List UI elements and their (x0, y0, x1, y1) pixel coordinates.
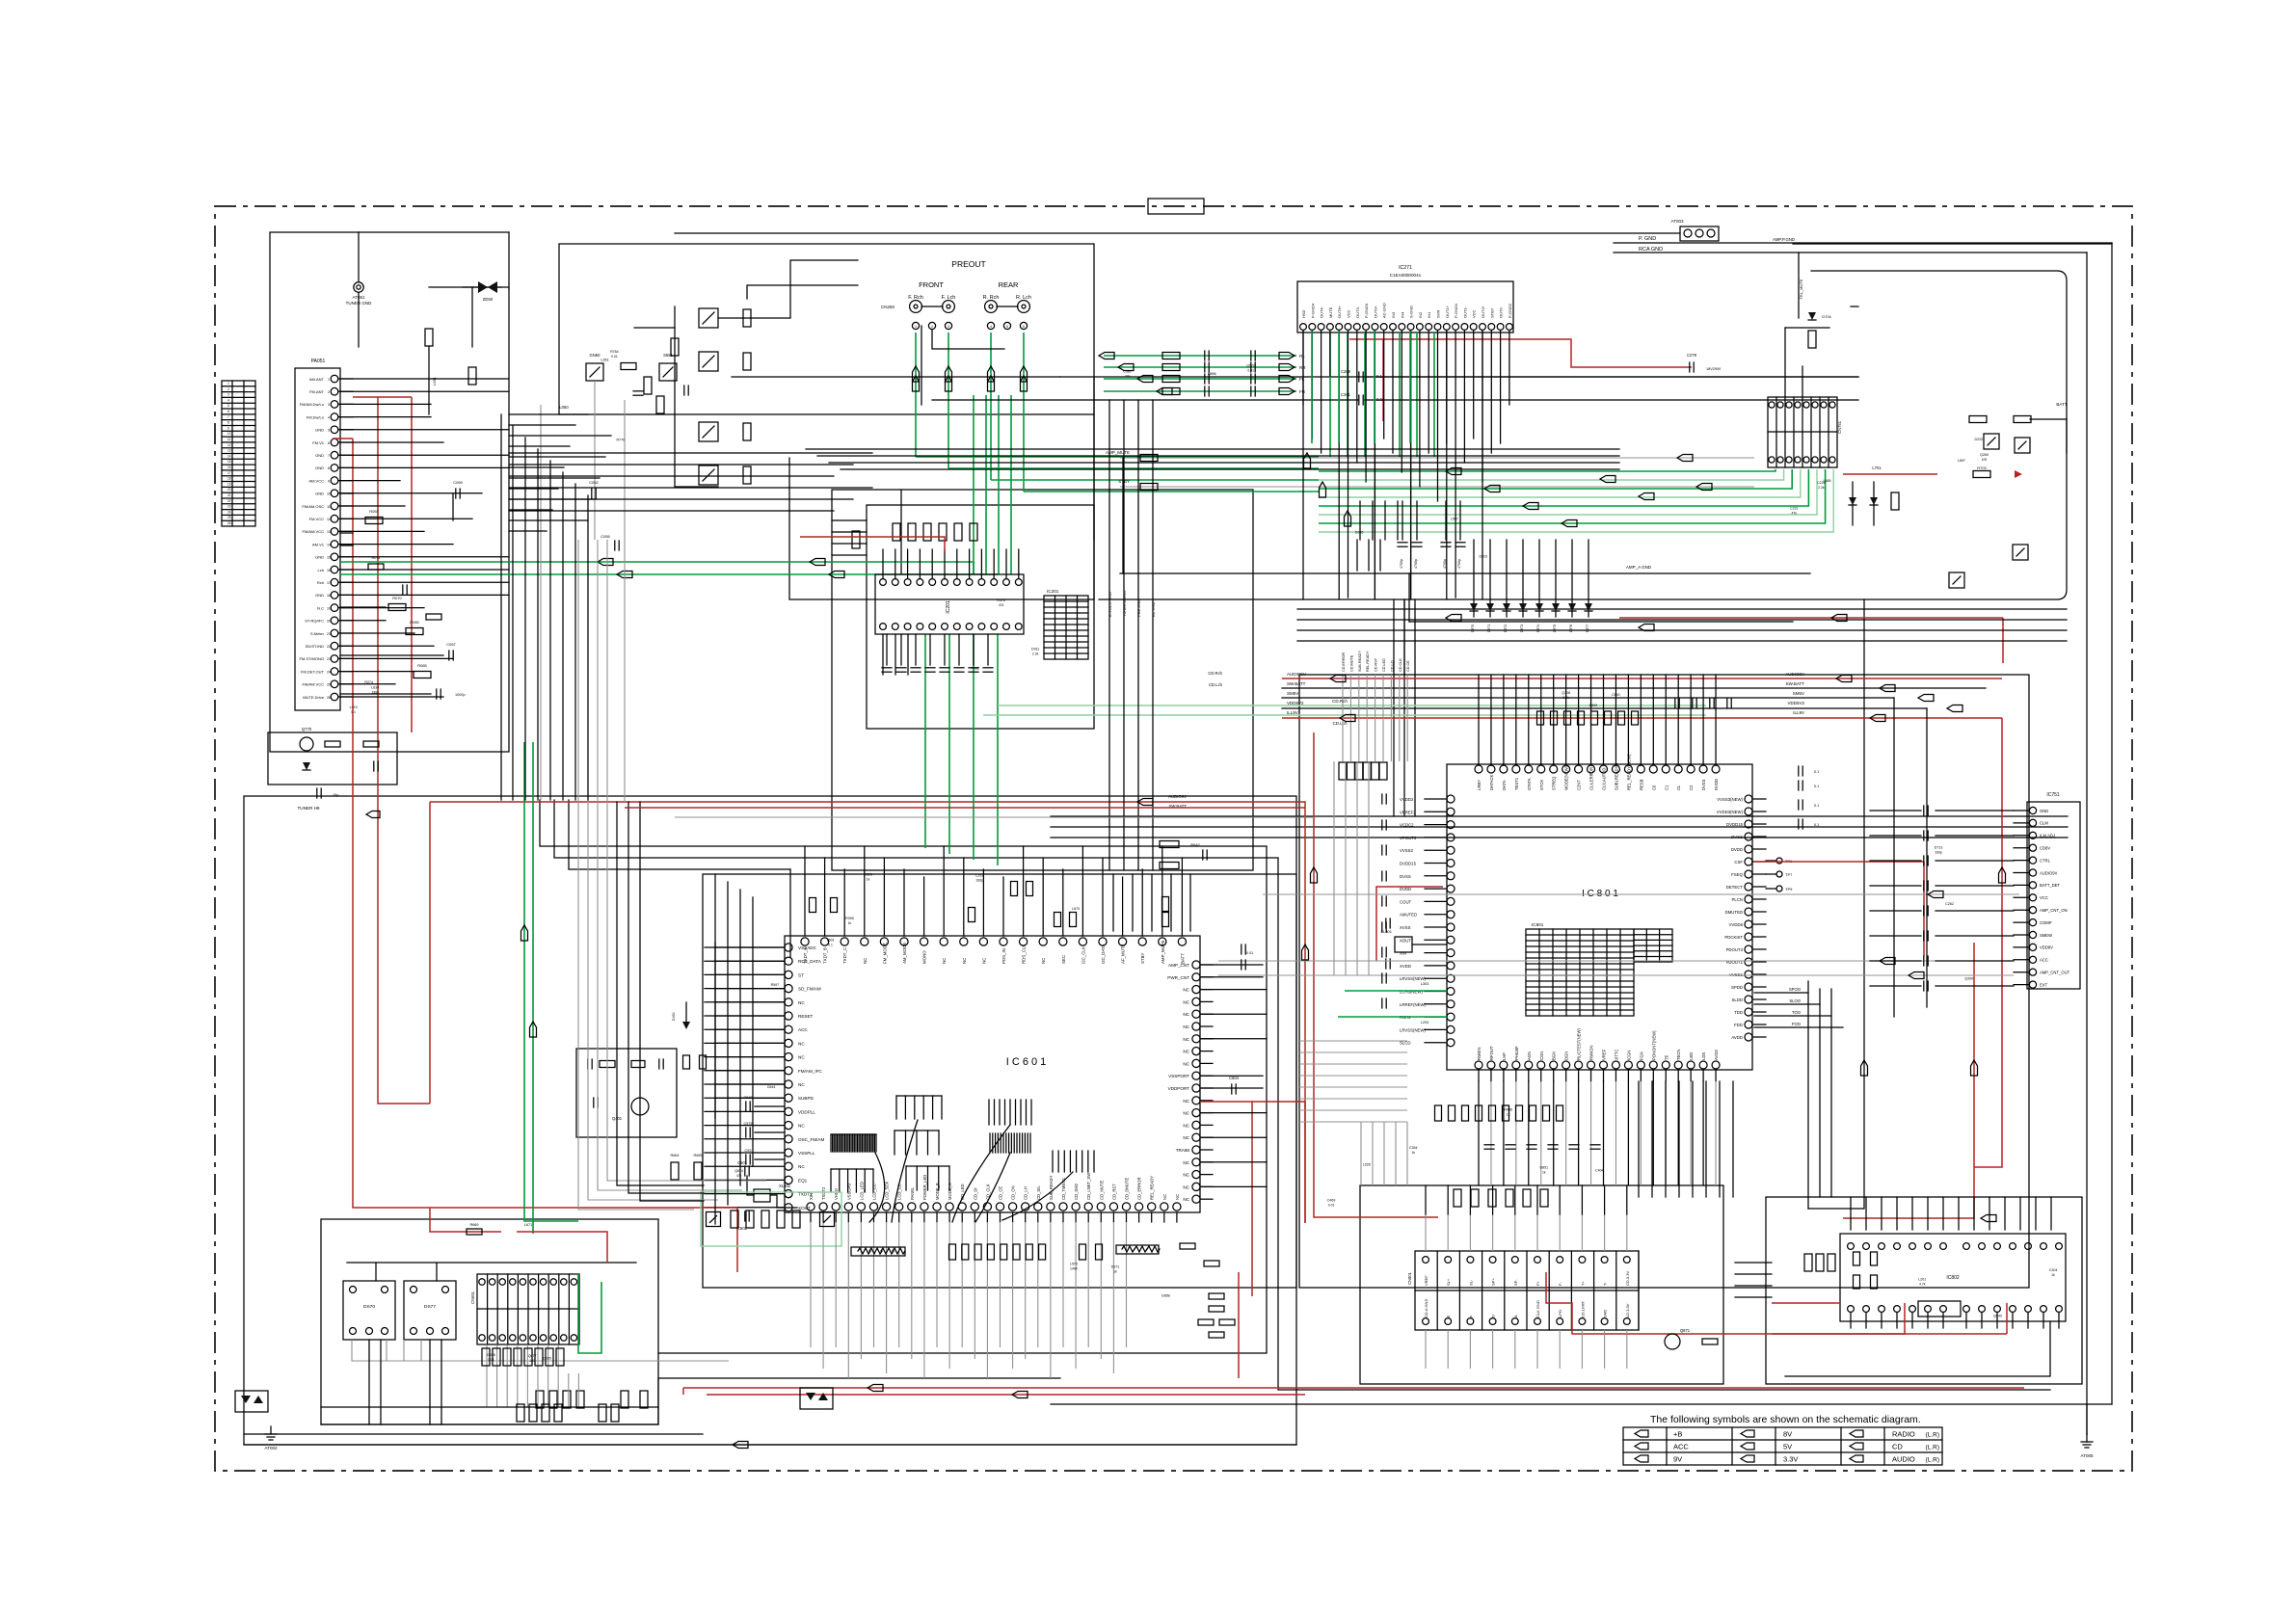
red keypad feed (430, 1208, 501, 1232)
svg-text:SLDD: SLDD (1732, 998, 1743, 1002)
svg-text:D858: D858 (1161, 1293, 1170, 1297)
svg-text:R053: R053 (369, 509, 379, 514)
svg-text:NC: NC (1041, 958, 1046, 964)
svg-text:21: 21 (227, 493, 231, 497)
svg-text:DMUTED: DMUTED (1725, 910, 1743, 915)
svg-text:4.7k: 4.7k (1919, 1283, 1926, 1287)
crystal XL601 (754, 1189, 770, 1202)
svg-text:FR: FR (1299, 389, 1306, 394)
thick gnd drop AT005 (2086, 1404, 2088, 1434)
red bottom-left tuner drop (353, 1099, 430, 1208)
cap C269 C261 (1358, 372, 1360, 382)
svg-text:15: 15 (327, 556, 331, 560)
svg-text:T+: T+ (1580, 1281, 1585, 1286)
svg-text:VSSPORT: VSSPORT (1168, 1074, 1189, 1078)
svg-text:Q677: Q677 (528, 1354, 537, 1358)
middle thick L to ic601 (789, 869, 791, 957)
svg-text:FM.VCC: FM.VCC (309, 517, 324, 521)
svg-text:R395: R395 (845, 917, 854, 920)
ic801 top resistor cluster (1537, 711, 1544, 725)
svg-text:1: 1 (227, 382, 229, 386)
front panel connector CN651 (477, 1274, 579, 1344)
svg-text:VVDD5: VVDD5 (1729, 922, 1744, 927)
IC801 test-mode table (1526, 929, 1634, 1016)
svg-text:CD_ERROR: CD_ERROR (1137, 1178, 1142, 1201)
svg-text:13: 13 (227, 449, 231, 453)
svg-text:PDOUT3: PDOUT3 (1726, 947, 1744, 952)
IC751 feed caps (1923, 806, 1925, 815)
svg-text:26: 26 (227, 521, 231, 525)
svg-text:Q871: Q871 (1680, 1328, 1691, 1333)
svg-text:GN50: GN50 (590, 353, 601, 358)
svg-text:8V: 8V (1783, 1430, 1792, 1439)
wire verticals into cd box (1393, 599, 1395, 816)
svg-text:IN1: IN1 (1427, 311, 1431, 318)
svg-text:Q896: Q896 (1208, 372, 1216, 376)
svg-text:ACC: ACC (798, 1027, 808, 1032)
svg-text:1: 1 (328, 378, 330, 382)
wire gray af-mute (624, 400, 626, 802)
preout inner wires (921, 326, 922, 405)
svg-text:VDD5V2: VDD5V2 (1287, 701, 1304, 705)
svg-text:TRA88: TRA88 (1176, 1148, 1190, 1153)
svg-text:RL: RL (1299, 354, 1305, 359)
svg-text:R784: R784 (610, 350, 619, 354)
svg-text:TP9: TP9 (1785, 887, 1793, 891)
svg-text:ST: ST (798, 972, 804, 977)
svg-text:P-GND3: P-GND3 (1364, 303, 1369, 318)
svg-text:18V2900: 18V2900 (1706, 367, 1721, 371)
wire green speaker bus 8 rows (1319, 469, 1775, 471)
wire green jack drops (915, 333, 917, 457)
svg-text:D851: D851 (1540, 1165, 1549, 1169)
svg-text:F-: F- (1558, 1282, 1562, 1286)
svg-text:VPREF2: VPREF2 (1400, 810, 1416, 814)
svg-text:S551: S551 (663, 353, 673, 358)
svg-text:20: 20 (227, 488, 231, 492)
left small caps tuner (455, 489, 457, 498)
wire ic801 bottom drops (1478, 1081, 1480, 1185)
svg-text:REAR: REAR (999, 280, 1019, 289)
right q cluster (1984, 434, 1999, 449)
svg-text:DGN: DGN (1564, 1051, 1569, 1060)
wire L051 (428, 347, 430, 414)
svg-text:COMP: COMP (2040, 920, 2052, 925)
svg-text:23: 23 (327, 657, 331, 661)
svg-text:AVSS: AVSS (1714, 1050, 1719, 1060)
svg-text:VCC: VCC (2040, 895, 2048, 900)
svg-text:CD.ERROR: CD.ERROR (1342, 652, 1346, 672)
wire green keypad box (701, 1192, 841, 1246)
svg-text:R694: R694 (670, 1154, 679, 1157)
thick bus main 3 (569, 800, 790, 869)
svg-text:NC: NC (1183, 1012, 1189, 1017)
svg-text:GND: GND (315, 492, 324, 496)
svg-text:C53: C53 (745, 1149, 752, 1153)
svg-text:NC: NC (1183, 1173, 1189, 1178)
svg-text:C1EA00000041: C1EA00000041 (1390, 273, 1422, 278)
wire tuner pin stubs (340, 378, 509, 380)
svg-text:I C 6 0 1: I C 6 0 1 (1006, 1056, 1047, 1068)
svg-text:C644: C644 (767, 1085, 776, 1089)
svg-text:PONONT(NEW): PONONT(NEW) (1651, 1030, 1656, 1060)
resistor network TA601 (851, 1247, 905, 1256)
wire red audio9v right top (1619, 617, 2003, 619)
svg-text:19: 19 (327, 606, 331, 610)
svg-text:R703: R703 (1977, 466, 1987, 470)
svg-text:FM/AM.VCC: FM/AM.VCC (303, 682, 325, 687)
svg-text:R642: R642 (1190, 842, 1200, 847)
svg-text:C279: C279 (1687, 353, 1697, 358)
bus into IC601 left (715, 946, 785, 948)
svg-text:RMKIN: RMKIN (1477, 1048, 1482, 1061)
svg-text:NC: NC (1183, 1050, 1189, 1054)
svg-text:C057: C057 (446, 642, 456, 647)
IC601 top feeds (804, 846, 806, 936)
svg-text:AT002: AT002 (265, 1446, 278, 1450)
svg-text:SD/ST.IND: SD/ST.IND (306, 644, 324, 649)
svg-text:SUB_READY: SUB_READY (1049, 1175, 1054, 1200)
svg-text:4700p: 4700p (1414, 559, 1418, 569)
svg-text:C640: C640 (1612, 693, 1620, 697)
svg-text:ST-RQ/IFC: ST-RQ/IFC (305, 619, 324, 624)
svg-text:DATACK: DATACK (1489, 774, 1494, 790)
svg-text:L526: L526 (1363, 1163, 1371, 1167)
e-vol sub-board box (832, 490, 1253, 870)
svg-text:CD8V: CD8V (2040, 846, 2050, 851)
key matrix DS70 (343, 1281, 395, 1340)
svg-text:LHF: LHF (1502, 1052, 1507, 1060)
svg-text:L897: L897 (1958, 459, 1965, 463)
svg-text:I2C_DATA: I2C_DATA (1101, 945, 1106, 964)
svg-text:1k: 1k (848, 921, 852, 925)
svg-text:(L.R): (L.R) (1926, 1432, 1939, 1439)
svg-text:6: 6 (328, 441, 330, 445)
svg-text:C261: C261 (1341, 392, 1351, 397)
system control IC751 (2027, 802, 2080, 989)
svg-text:11: 11 (227, 438, 231, 441)
svg-text:RCA GND: RCA GND (1639, 247, 1663, 253)
tuner box top bus (359, 231, 509, 233)
svg-text:NC: NC (1162, 1194, 1167, 1200)
tuner sub-board box (270, 232, 509, 752)
svg-text:AUDIO9V: AUDIO9V (1168, 794, 1187, 799)
svg-text:EXT: EXT (2040, 982, 2048, 987)
crystal XL801 (1395, 937, 1412, 952)
gray line vddsv2 (675, 816, 1314, 818)
svg-text:NC: NC (1183, 1061, 1189, 1066)
tuner bus verticals bundle (500, 414, 502, 800)
IC801 test points (1776, 858, 1782, 864)
svg-text:RESET: RESET (798, 1014, 814, 1019)
thick bus right loop (1099, 271, 2067, 599)
transistor cluster Q251-254 (699, 308, 718, 328)
svg-text:LRVSS(NEW): LRVSS(NEW) (1400, 1027, 1426, 1032)
svg-text:L303: L303 (1421, 982, 1428, 986)
cd signal cluster top (1342, 675, 1344, 761)
svg-text:1k: 1k (1411, 1151, 1415, 1155)
svg-text:D828: D828 (864, 873, 872, 877)
svg-text:26: 26 (327, 696, 331, 700)
IC271 deep drops (1302, 331, 1304, 599)
IC601 top pins (801, 938, 809, 945)
net arrows scattered (1099, 353, 1114, 359)
svg-text:47k: 47k (736, 1174, 742, 1178)
ic601 box top feeds from rails (1112, 874, 1114, 931)
svg-text:OSC_FM/AM: OSC_FM/AM (798, 1137, 824, 1142)
svg-text:AMUTED: AMUTED (1400, 913, 1417, 918)
svg-text:PDCKIST: PDCKIST (1724, 935, 1743, 940)
svg-text:OUT4+: OUT4+ (1337, 305, 1342, 318)
svg-text:D223: D223 (1974, 438, 1983, 441)
wire red evol vcc (800, 537, 945, 551)
svg-text:23: 23 (227, 505, 231, 509)
ic801 top caps right (1674, 699, 1676, 708)
main micro sub-board box (703, 874, 1296, 1288)
svg-text:AT003: AT003 (1671, 219, 1684, 224)
svg-text:XL601: XL601 (779, 1184, 791, 1188)
svg-text:C469: C469 (1327, 1198, 1336, 1202)
svg-text:TXDT2: TXDT2 (821, 1186, 826, 1200)
svg-text:0.01: 0.01 (1247, 369, 1254, 373)
svg-text:C2: C2 (1689, 785, 1694, 790)
svg-text:CD.LIMIT: CD.LIMIT (1580, 1300, 1585, 1317)
svg-text:2.2k: 2.2k (1818, 486, 1825, 490)
svg-text:AMP.P.GND: AMP.P.GND (1773, 237, 1795, 242)
svg-text:COUT: COUT (1400, 899, 1412, 904)
svg-text:Q570: Q570 (1246, 364, 1255, 368)
tuner pin table (222, 381, 255, 526)
svg-text:D355: D355 (1355, 530, 1364, 534)
svg-text:C548: C548 (743, 1096, 752, 1100)
gray bundle verticals mid (578, 540, 694, 1210)
svg-text:ILL9V: ILL9V (1287, 710, 1298, 715)
tuner lower wires (340, 606, 386, 608)
svg-text:BATT_DET: BATT_DET (2040, 883, 2061, 888)
svg-text:IN3: IN3 (1391, 311, 1396, 318)
IC601 bottom pins (807, 1203, 814, 1211)
aux resistor cluster in green box (731, 1211, 738, 1228)
svg-text:TOO: TOO (1792, 1010, 1802, 1015)
svg-text:C221: C221 (1790, 506, 1799, 510)
svg-text:3: 3 (328, 403, 330, 407)
svg-text:FM.V1: FM.V1 (312, 440, 325, 445)
svg-text:5: 5 (227, 404, 229, 408)
svg-text:C269: C269 (1341, 369, 1351, 374)
op-amp U-IC801 body (1447, 764, 1752, 1070)
svg-text:LED: LED (1689, 1052, 1694, 1060)
svg-text:E: E (1446, 1315, 1451, 1317)
svg-text:5V: 5V (1783, 1443, 1792, 1451)
svg-text:PLCN: PLCN (1732, 897, 1743, 902)
thick bus amp gnd (789, 458, 1094, 599)
svg-text:SM5V: SM5V (1793, 691, 1804, 696)
red keypad L671 (517, 1231, 540, 1233)
evol side resistors (852, 531, 860, 548)
svg-text:VHSU: VHSU (834, 1188, 839, 1200)
svg-text:R065: R065 (417, 663, 427, 668)
keyboard lower resistors (536, 1391, 544, 1408)
svg-text:NC: NC (1175, 1194, 1180, 1200)
svg-text:TE: TE (1664, 1054, 1669, 1060)
svg-text:VSSPLL: VSSPLL (798, 1151, 815, 1156)
AT051 tuner gnd (354, 282, 363, 292)
ic802 top feeds (1850, 1197, 1852, 1230)
svg-text:(L.R): (L.R) (1926, 1445, 1939, 1451)
svg-text:REL.READY: REL.READY (1366, 651, 1370, 672)
svg-text:D973: D973 (1520, 625, 1524, 633)
svg-text:D823: D823 (1479, 554, 1487, 558)
right area mesh (1807, 981, 1809, 1209)
wire gray stby (1120, 486, 1754, 488)
IC271 caps below (1402, 501, 1403, 540)
svg-text:4700p: 4700p (1400, 559, 1403, 569)
svg-text:DVDD15: DVDD15 (1400, 862, 1417, 866)
svg-text:C404: C404 (1595, 1168, 1604, 1172)
wire red tuner verticals (352, 439, 354, 1099)
svg-text:ILL9V: ILL9V (1793, 710, 1804, 715)
Q871 transistor (1665, 1334, 1680, 1349)
svg-text:CD_LH: CD_LH (1024, 1186, 1028, 1200)
svg-text:DATA: DATA (1502, 780, 1507, 790)
svg-text:D704: D704 (1822, 314, 1831, 319)
svg-text:PHILBF: PHILBF (1514, 1046, 1519, 1060)
keyboard wires down (368, 1340, 370, 1424)
svg-text:R695: R695 (693, 1154, 702, 1157)
svg-text:FM_MODE: FM_MODE (882, 943, 887, 964)
svg-text:RADIO: RADIO (1892, 1430, 1915, 1439)
mid page long rails (1297, 608, 2067, 610)
svg-text:P-GND1: P-GND1 (1454, 303, 1458, 318)
bottom long thin wires (321, 1406, 658, 1408)
svg-text:4700p: 4700p (1457, 559, 1461, 569)
svg-text:VCC: VCC (1347, 309, 1351, 318)
IC601 bottom resistor row (949, 1244, 956, 1260)
svg-text:17: 17 (227, 471, 231, 475)
inductor L050 (540, 413, 588, 415)
svg-text:3.3V: 3.3V (1783, 1455, 1798, 1464)
svg-text:TXDT_A: TXDT_A (803, 947, 808, 964)
svg-text:330p: 330p (1935, 850, 1942, 854)
svg-text:Q260: Q260 (1980, 453, 1989, 457)
svg-text:FM/AM.Dw/Lo: FM/AM.Dw/Lo (300, 402, 325, 407)
cd servo connector box (1360, 1185, 1723, 1384)
preout small parts (671, 338, 679, 356)
cap row left of IC601 (745, 1102, 747, 1111)
svg-text:LPO: LPO (1558, 1310, 1562, 1317)
svg-text:6: 6 (1023, 325, 1025, 329)
power connector CN751 (1768, 397, 1837, 467)
svg-text:DVDD: DVDD (1400, 887, 1411, 891)
svg-text:AUDIO9V: AUDIO9V (1287, 672, 1306, 677)
ic801 bottom black drops2 (1638, 1081, 1640, 1197)
svg-text:C055: C055 (601, 534, 610, 539)
svg-text:ZD50: ZD50 (483, 297, 494, 302)
svg-text:2: 2 (328, 390, 330, 394)
svg-text:NC: NC (798, 1041, 805, 1046)
cd mech connector CN801 (1415, 1251, 1639, 1330)
op-amp U-IC601 body (785, 936, 1200, 1212)
svg-text:2.2k: 2.2k (1562, 696, 1569, 700)
svg-text:D555: D555 (543, 1356, 551, 1360)
IC601 top resistor row (810, 898, 816, 913)
svg-text:GND: GND (315, 466, 324, 470)
svg-text:D899: D899 (1589, 704, 1598, 707)
black bundle mid-left down (617, 802, 704, 1185)
svg-text:1000p: 1000p (455, 693, 466, 697)
wire gray amp-mute (1120, 457, 1754, 459)
power-amp IC271 body (1297, 281, 1513, 333)
svg-text:RLICTEST(NEW): RLICTEST(NEW) (1577, 1028, 1582, 1060)
svg-text:DVSS: DVSS (1400, 874, 1411, 879)
svg-text:L201: L201 (1918, 1278, 1926, 1282)
svg-text:L051: L051 (432, 376, 437, 386)
svg-text:L253: L253 (975, 873, 983, 877)
svg-text:L203: L203 (1421, 1021, 1428, 1024)
red swbatt midline (625, 807, 1305, 809)
svg-text:AC GND: AC GND (1151, 601, 1156, 617)
svg-text:LRVSS(NEW): LRVSS(NEW) (1400, 976, 1426, 981)
svg-text:1: 1 (915, 325, 917, 329)
wire red audio9v rail mid (1282, 678, 2002, 679)
C279 cap (1689, 362, 1691, 372)
svg-text:AM.V1: AM.V1 (312, 542, 325, 546)
svg-text:CD.3.3V: CD.3.3V (1625, 1271, 1630, 1286)
svg-text:100: 100 (529, 1359, 535, 1363)
svg-text:IC801: IC801 (1532, 922, 1544, 927)
svg-text:5: 5 (328, 429, 330, 433)
svg-text:STATA: STATA (1527, 778, 1532, 790)
svg-text:L634: L634 (371, 685, 379, 689)
svg-text:25: 25 (227, 516, 231, 519)
thick bus cd vertical (1808, 599, 1864, 1209)
svg-text:L701: L701 (1872, 466, 1882, 470)
svg-text:OUT1-: OUT1- (1462, 306, 1467, 318)
keyboard diodes (806, 1393, 815, 1400)
bottom-left main board box (244, 796, 1296, 1445)
IC601 right pins (1192, 961, 1200, 969)
svg-text:NC: NC (863, 958, 868, 964)
svg-text:CN250: CN250 (881, 305, 895, 309)
svg-text:D975: D975 (1553, 625, 1557, 633)
ic802 inner resistors (1804, 1254, 1812, 1271)
svg-text:GND: GND (315, 428, 324, 433)
svg-text:L263: L263 (601, 359, 608, 362)
svg-text:0.1: 0.1 (351, 710, 356, 714)
svg-text:330p: 330p (975, 878, 983, 882)
net arrows right rails (1836, 676, 1852, 682)
ic802 left resistors (1854, 1252, 1860, 1265)
svg-text:R669: R669 (469, 1223, 478, 1227)
svg-text:LRBY: LRBY (1477, 780, 1482, 790)
svg-text:OUT3-: OUT3- (1355, 306, 1360, 318)
wire tel-mute (1798, 253, 1800, 318)
svg-text:8: 8 (328, 466, 330, 470)
amp gnd risers (1122, 458, 1124, 573)
svg-text:NC: NC (1183, 999, 1189, 1004)
wire green aux verticals (524, 742, 578, 1221)
keypad bottom small boxes (517, 1404, 524, 1422)
svg-text:13: 13 (327, 530, 331, 534)
wire green resistor rows (1104, 355, 1296, 357)
svg-text:10p: 10p (333, 793, 338, 797)
svg-text:0.01: 0.01 (488, 1358, 494, 1362)
svg-text:19: 19 (227, 482, 231, 486)
svg-text:R486: R486 (1504, 1107, 1512, 1111)
svg-text:ICGN: ICGN (1626, 1051, 1631, 1060)
svg-text:2.2k: 2.2k (1032, 652, 1039, 656)
wire green cd rch lch (998, 705, 1706, 706)
